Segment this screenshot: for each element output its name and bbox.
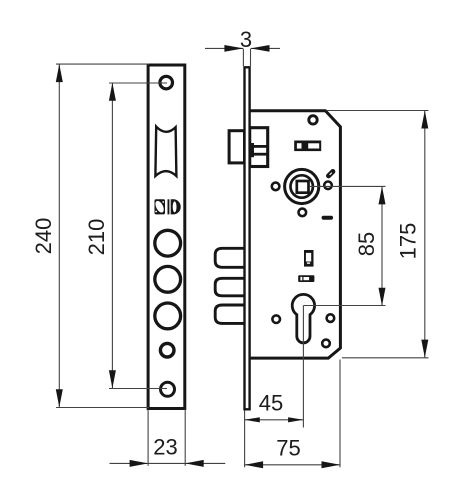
dim 240 bottom extension xyxy=(56,407,149,409)
deadbolt pin 1 xyxy=(215,248,244,267)
euro cylinder hole xyxy=(292,294,314,343)
dim 75 right extension xyxy=(339,360,341,468)
svg-text:75: 75 xyxy=(276,436,300,461)
deadbolt pin 3 xyxy=(215,305,244,323)
lock body outline xyxy=(250,111,341,358)
faceplate small hole xyxy=(160,343,174,357)
dim 75 line xyxy=(245,464,340,466)
dimension labels xyxy=(31,27,421,461)
arrowheads xyxy=(56,45,429,468)
slanted spring detail xyxy=(325,168,336,179)
arrow 75 left xyxy=(245,461,264,468)
arrow 240 top xyxy=(56,64,63,82)
arrow 23 left xyxy=(130,460,149,467)
svg-text:175: 175 xyxy=(396,223,421,260)
dim 240 top extension xyxy=(56,63,149,65)
svg-text:85: 85 xyxy=(354,232,379,256)
shared left extension 45 75 xyxy=(244,411,246,468)
arrow 75 right xyxy=(322,461,341,468)
faceplate big hole 1 xyxy=(155,230,181,256)
dim 210 bottom extension xyxy=(109,388,167,390)
faceplate big hole 3 xyxy=(155,303,181,329)
dim 23 left extension xyxy=(147,410,149,466)
svg-text:45: 45 xyxy=(259,391,283,416)
SD logo D xyxy=(168,199,181,214)
arrow 45 left xyxy=(245,417,260,422)
follower left screw hole xyxy=(272,183,280,191)
cylinder right screw hole xyxy=(327,314,335,322)
latch bolt tail xyxy=(250,128,268,167)
small dark stud xyxy=(322,216,333,220)
stop works slide slot xyxy=(294,141,321,152)
dim 45 line xyxy=(245,419,304,421)
dim 210 top extension xyxy=(109,82,167,84)
arrow 23 right xyxy=(185,460,204,467)
svg-text:23: 23 xyxy=(153,434,177,459)
dim 23 right extension xyxy=(184,410,186,466)
follower right screw hole xyxy=(324,182,332,190)
arrow 85 top xyxy=(379,186,386,204)
dim 175 top extension xyxy=(326,110,429,112)
svg-text:3: 3 xyxy=(240,27,252,52)
latch bolt head xyxy=(229,131,244,163)
deadbolt guide horizontal xyxy=(298,275,314,282)
dim 175 line xyxy=(424,111,426,358)
arrow 240 bottom xyxy=(56,389,63,407)
dim 210 line xyxy=(111,83,113,389)
dim 3 extension right xyxy=(250,49,252,66)
arrow 175 bottom xyxy=(421,340,428,358)
thin dimension linework xyxy=(56,48,429,467)
spindle follower inner circle xyxy=(291,175,313,197)
deadbolt guide vertical xyxy=(304,250,314,267)
cylinder left screw hole xyxy=(272,315,280,323)
arrow 210 bottom xyxy=(109,370,116,388)
dim 240 line xyxy=(58,64,60,407)
bottom corner screw hole xyxy=(322,340,330,348)
latch spring line upper xyxy=(253,145,268,148)
latch spring bar xyxy=(250,143,254,157)
dim 3 line left tail xyxy=(205,47,243,49)
deadbolt pin 2 xyxy=(215,278,244,296)
dim 3 line right tail xyxy=(251,47,281,49)
faceplate top screw hole xyxy=(160,76,173,89)
body top screw hole xyxy=(309,116,317,124)
dim 85 bottom extension xyxy=(303,305,385,307)
faceplate bottom screw hole xyxy=(161,382,175,396)
latch cutout xyxy=(155,127,176,176)
arrow 85 bottom xyxy=(379,288,386,306)
spindle square hole xyxy=(297,181,309,193)
SD logo S xyxy=(154,199,166,214)
faceplate big hole 2 xyxy=(155,266,181,292)
arrow 175 top xyxy=(421,111,428,129)
faceplate outline xyxy=(148,65,185,409)
cylinder centre extension xyxy=(302,306,304,428)
forend plate side view xyxy=(245,67,250,409)
arrow 45 right xyxy=(288,417,303,422)
svg-text:210: 210 xyxy=(84,219,109,256)
arrow 3 right xyxy=(251,45,270,52)
dim 3 extension left xyxy=(242,49,244,66)
dim 85 line xyxy=(381,186,383,305)
arrow 210 top xyxy=(109,83,116,101)
svg-text:240: 240 xyxy=(31,218,56,255)
arrow 3 left xyxy=(224,45,243,52)
dim 85 top extension xyxy=(310,185,386,187)
dim 23 line xyxy=(110,462,226,464)
latch spring line lower xyxy=(253,153,268,156)
follower bottom screw hole xyxy=(299,209,307,217)
dim 175 bottom extension xyxy=(342,357,429,359)
spindle follower outer circle xyxy=(285,169,319,203)
